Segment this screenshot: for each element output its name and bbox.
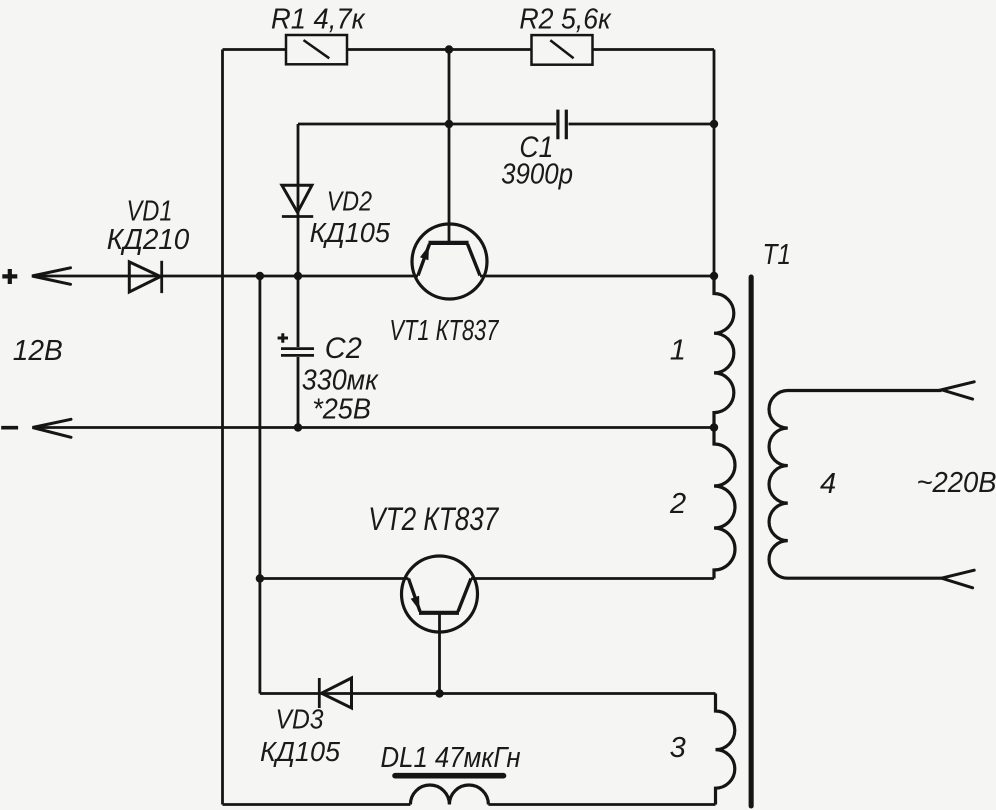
svg-text:КД105: КД105 <box>260 736 340 767</box>
svg-text:VD1: VD1 <box>127 196 173 228</box>
svg-text:VT1 КТ837: VT1 КТ837 <box>389 315 499 347</box>
svg-text:КД105: КД105 <box>310 217 391 248</box>
svg-text:3900р: 3900р <box>501 159 573 191</box>
svg-text:4: 4 <box>820 468 836 500</box>
svg-text:1: 1 <box>670 335 686 367</box>
svg-text:R1 4,7к: R1 4,7к <box>271 4 366 36</box>
svg-text:2: 2 <box>669 488 686 520</box>
svg-text:330мк: 330мк <box>302 365 379 397</box>
svg-text:КД210: КД210 <box>107 224 190 256</box>
svg-text:*25В: *25В <box>312 394 371 426</box>
svg-text:R2 5,6к: R2 5,6к <box>519 4 611 36</box>
svg-text:~220В: ~220В <box>917 467 996 499</box>
svg-text:VT2 КТ837: VT2 КТ837 <box>368 501 499 537</box>
svg-text:DL1 47мкГн: DL1 47мкГн <box>381 742 521 774</box>
svg-text:12В: 12В <box>13 335 63 367</box>
svg-text:C2: C2 <box>325 332 362 365</box>
svg-text:3: 3 <box>670 732 686 764</box>
svg-text:VD3: VD3 <box>276 703 325 734</box>
svg-text:T1: T1 <box>763 239 792 271</box>
svg-text:VD2: VD2 <box>327 186 373 217</box>
